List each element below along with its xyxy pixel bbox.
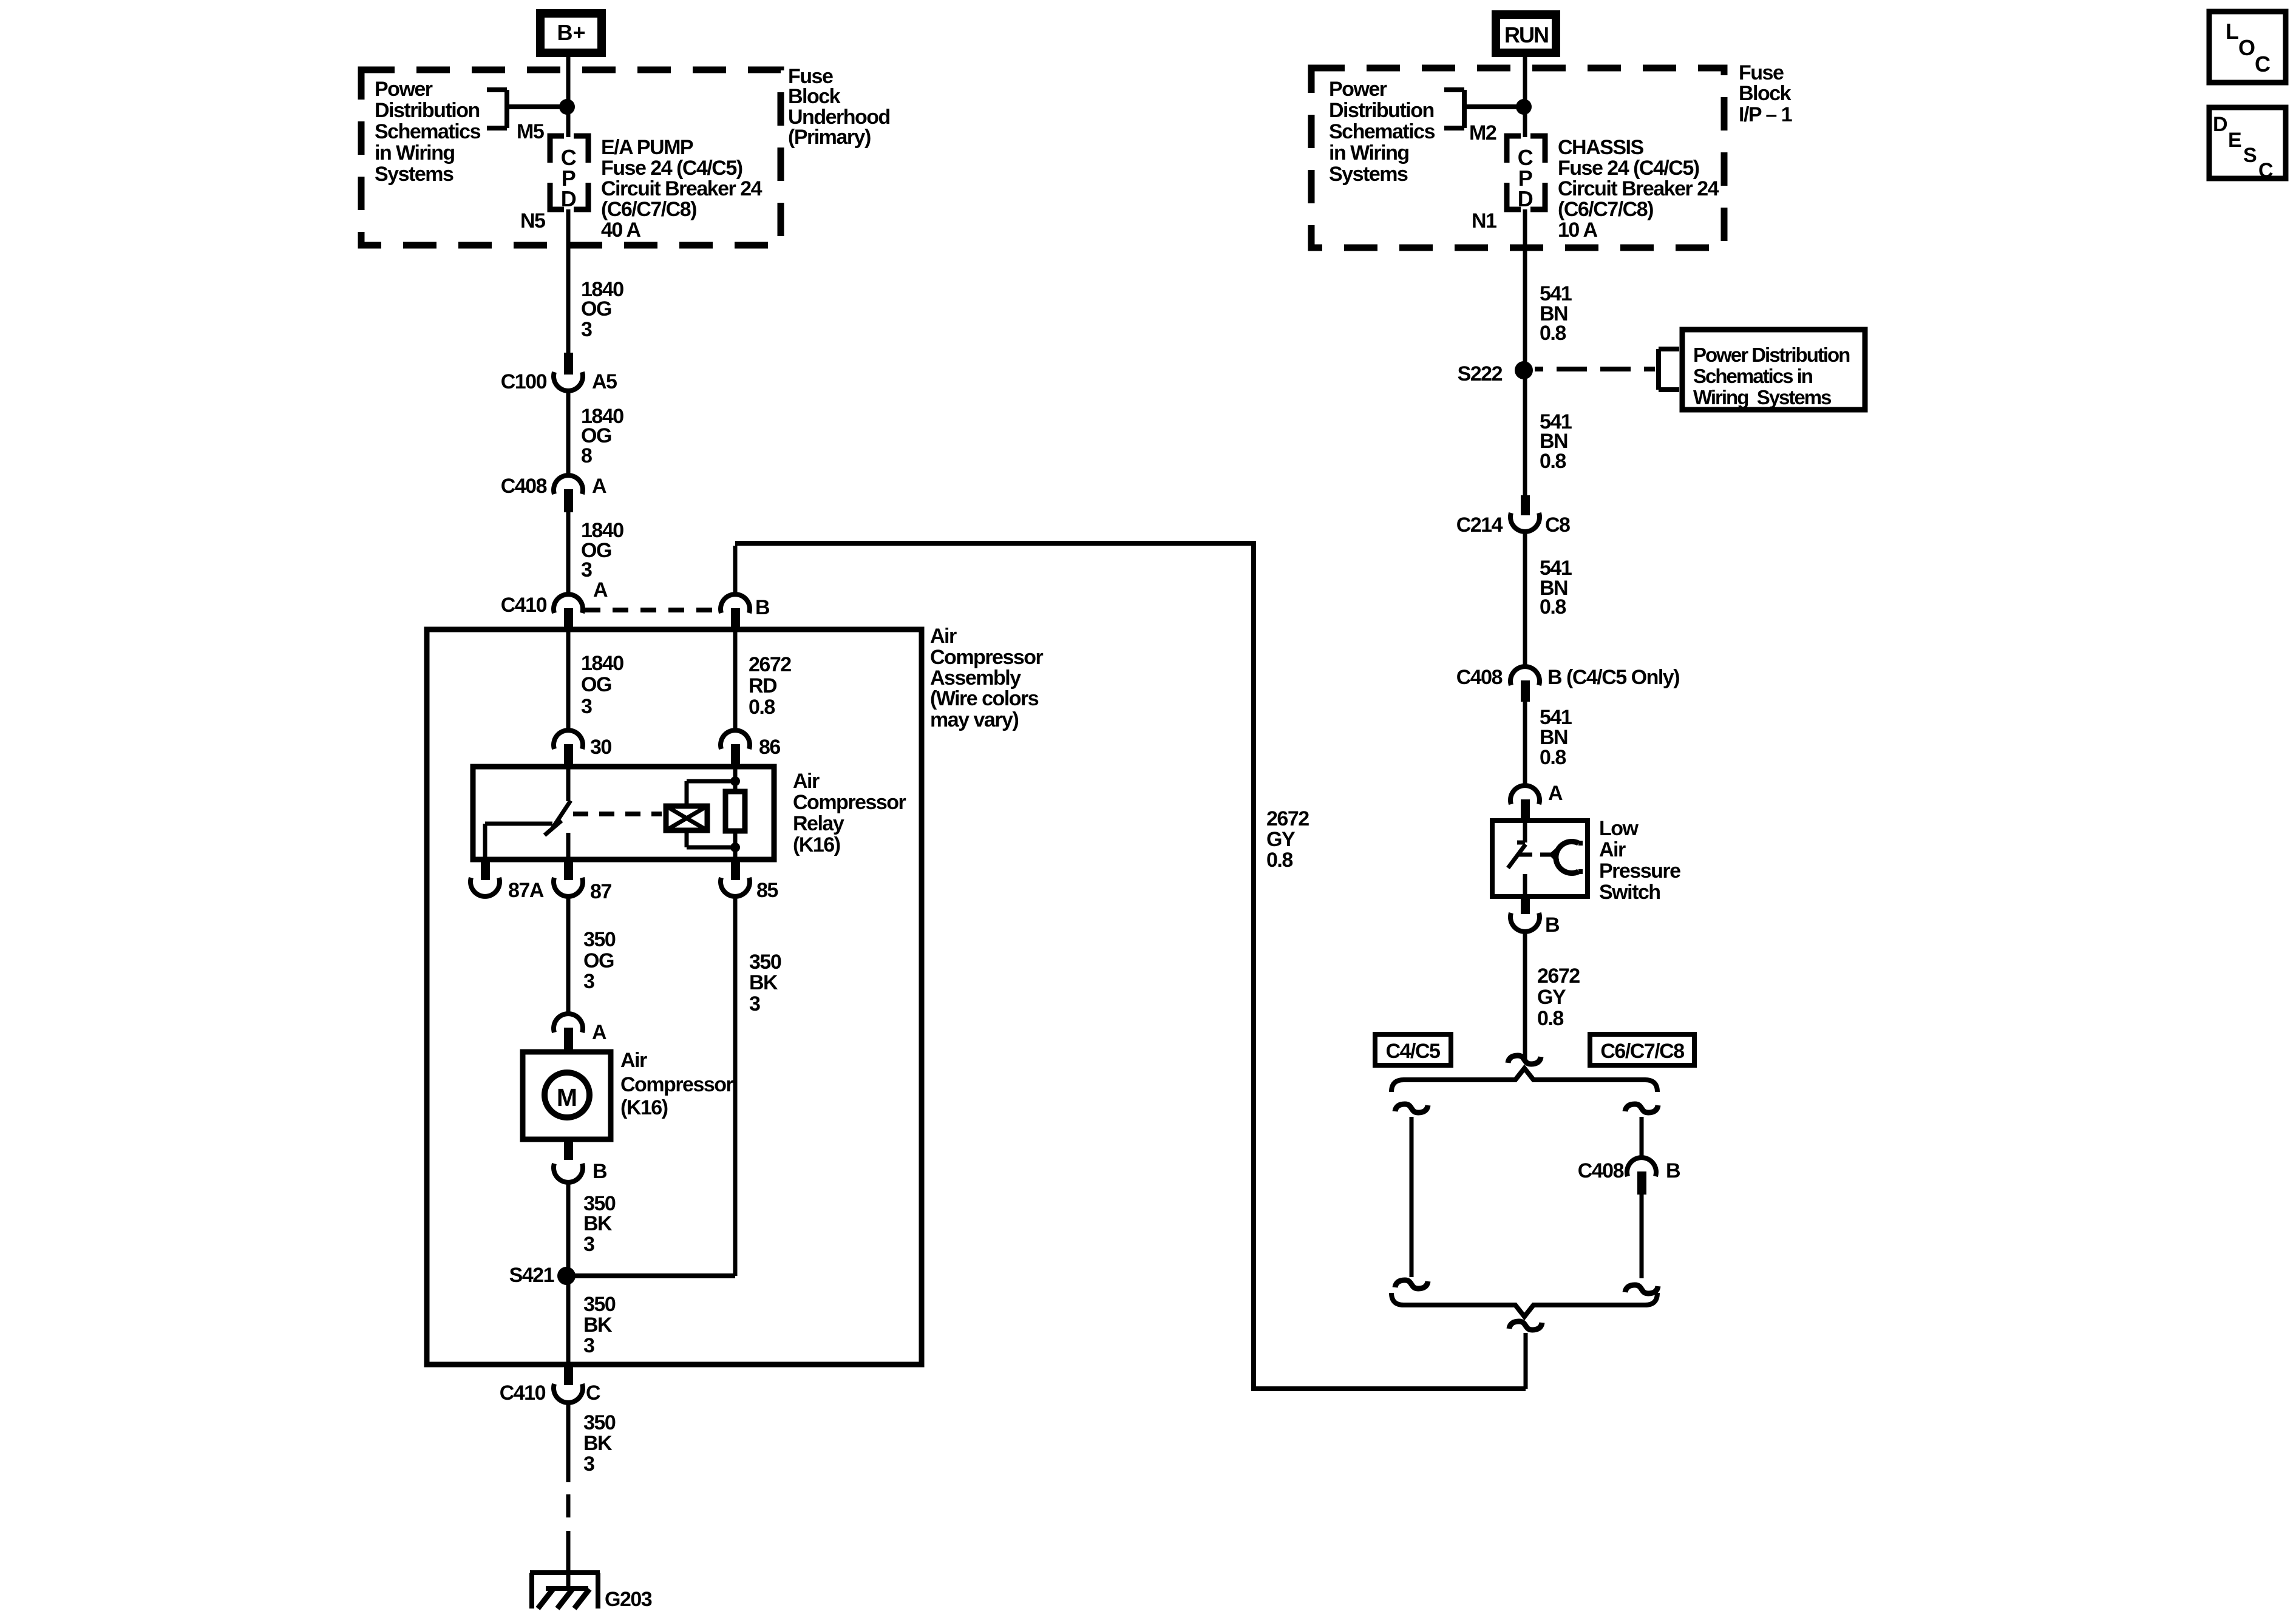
label pin C xyxy=(586,1381,600,1405)
fuse / circuit breaker CPD symbol (CHASSIS) xyxy=(1507,136,1545,211)
label C408 xyxy=(501,475,547,498)
wire switch to brace xyxy=(1523,932,1527,1060)
svg-text:Compressor: Compressor xyxy=(793,791,906,814)
svg-text:N1: N1 xyxy=(1472,209,1496,232)
relay pin 87A xyxy=(470,859,500,897)
svg-text:A: A xyxy=(592,475,606,498)
svg-text:Compressor: Compressor xyxy=(930,646,1044,669)
brace upper xyxy=(1391,1068,1657,1092)
wire loop vertical xyxy=(1251,541,1256,1391)
svg-text:0.8: 0.8 xyxy=(1540,450,1566,473)
svg-text:A: A xyxy=(593,578,608,602)
air compressor relay K16 box xyxy=(473,767,774,859)
wire label 350 BK 3 (above C410 C) xyxy=(583,1293,616,1357)
continuation hook (below lower brace) xyxy=(1509,1321,1542,1330)
label pin A (motor) xyxy=(592,1021,606,1044)
wire C408 to C410 xyxy=(566,512,571,594)
svg-text:3: 3 xyxy=(583,1233,594,1256)
connector C408 pin B right xyxy=(1510,666,1540,702)
fuse block I/P dashed box xyxy=(1311,68,1724,248)
svg-text:3: 3 xyxy=(749,992,760,1015)
splice S222 xyxy=(1515,361,1533,379)
svg-text:B+: B+ xyxy=(557,20,585,45)
svg-text:BK: BK xyxy=(583,1314,613,1337)
variant box C6/C7/C8 xyxy=(1590,1034,1694,1065)
svg-text:Low: Low xyxy=(1599,817,1639,840)
connector C100 pin A5 xyxy=(554,353,583,391)
svg-text:Air: Air xyxy=(930,625,957,648)
svg-text:Distribution: Distribution xyxy=(1329,99,1434,122)
label S222 xyxy=(1458,362,1503,385)
svg-text:Block: Block xyxy=(788,85,841,108)
svg-text:Compressor: Compressor xyxy=(620,1073,734,1096)
label pin A (switch) xyxy=(1548,782,1563,805)
svg-text:D: D xyxy=(2213,113,2227,136)
bracket to Power Distribution Schematics box xyxy=(1659,349,1679,390)
svg-text:0.8: 0.8 xyxy=(1266,849,1292,872)
label pin B (motor) xyxy=(593,1160,607,1183)
svg-text:Power Distribution: Power Distribution xyxy=(1693,344,1850,366)
svg-text:A: A xyxy=(1548,782,1563,805)
svg-text:B: B xyxy=(593,1160,607,1183)
connector C408 pin A xyxy=(554,475,583,512)
label Low Air Pressure Switch xyxy=(1599,817,1680,904)
svg-text:(C6/C7/C8): (C6/C7/C8) xyxy=(601,198,696,221)
svg-text:O: O xyxy=(2238,35,2255,60)
relay fixed contact from pin 30 xyxy=(566,767,571,801)
wire C410-A into assembly xyxy=(566,631,571,730)
label Air Compressor (K16) xyxy=(620,1049,734,1119)
wire motor to S421 xyxy=(566,1183,571,1276)
label pin B (C410) xyxy=(755,596,770,619)
svg-text:GY: GY xyxy=(1537,986,1566,1009)
svg-text:RD: RD xyxy=(749,674,777,697)
wire label 541 BN 0.8 (above S222) xyxy=(1540,282,1572,345)
connector C408 pin B (variant) xyxy=(1627,1158,1656,1195)
svg-text:Systems: Systems xyxy=(1329,163,1408,186)
label C410 (bottom) xyxy=(500,1381,546,1405)
svg-text:Schematics in: Schematics in xyxy=(1693,365,1813,387)
svg-text:D: D xyxy=(1518,186,1533,211)
dashed reference from S222 xyxy=(1535,367,1655,371)
svg-text:(K16): (K16) xyxy=(793,833,840,856)
svg-text:30: 30 xyxy=(590,736,611,759)
wire label 541 BN 0.8 (above C214) xyxy=(1540,410,1572,473)
svg-text:N5: N5 xyxy=(520,209,545,232)
wire S222 to C214 xyxy=(1523,369,1527,500)
wire label 350 BK 3 (above ground) xyxy=(583,1411,616,1476)
label C410 xyxy=(501,594,547,617)
svg-text:C4/C5: C4/C5 xyxy=(1386,1040,1440,1063)
svg-text:C100: C100 xyxy=(501,370,547,393)
wire C410-B into assembly xyxy=(733,631,738,730)
fuse / circuit breaker CPD symbol (E/A PUMP) xyxy=(550,136,588,211)
svg-text:Power: Power xyxy=(375,78,433,101)
wire label 350 OG 3 xyxy=(583,928,616,993)
relay resistor xyxy=(725,767,745,859)
wire label 1840 OG 3 (above relay pin 30) xyxy=(581,652,623,718)
svg-text:350: 350 xyxy=(583,1411,616,1434)
label pin 87 xyxy=(590,880,611,903)
relay pin 85 xyxy=(721,859,750,897)
svg-text:85: 85 xyxy=(756,879,778,902)
svg-text:GY: GY xyxy=(1266,828,1296,851)
dashed connector link C410 A-B xyxy=(585,608,721,612)
svg-text:BK: BK xyxy=(583,1212,613,1235)
splice S421 xyxy=(557,1267,576,1285)
DESC corner box xyxy=(2209,107,2286,182)
label CHASSIS Fuse 24 Circuit Breaker 24 10 A xyxy=(1558,136,1719,242)
svg-text:in Wiring: in Wiring xyxy=(375,141,455,164)
continuation hook (left variant) xyxy=(1395,1104,1428,1113)
svg-text:2672: 2672 xyxy=(1537,964,1580,988)
wire junction to fuse xyxy=(566,107,571,137)
relay switch common to 87A xyxy=(485,824,552,859)
motor pin B xyxy=(554,1139,583,1182)
label C408 (right) xyxy=(1456,666,1503,689)
label pin 30 xyxy=(590,736,611,759)
wire label 1840 OG 3 (above C410) xyxy=(581,519,623,581)
label S421 xyxy=(509,1264,554,1287)
svg-text:Schematics: Schematics xyxy=(1329,120,1435,143)
svg-text:M2: M2 xyxy=(1469,121,1496,144)
svg-text:350: 350 xyxy=(583,1293,616,1316)
svg-text:Wiring Systems: Wiring Systems xyxy=(1693,386,1831,408)
svg-text:(Wire colors: (Wire colors xyxy=(930,687,1039,710)
continuation hook (right variant bottom) xyxy=(1625,1285,1658,1293)
bracket tap M2 to Power Distribution Schematics xyxy=(1444,90,1524,128)
label pin C8 xyxy=(1545,514,1570,537)
svg-text:S222: S222 xyxy=(1458,362,1503,385)
svg-text:BK: BK xyxy=(749,971,778,994)
relay pin 87 stub xyxy=(566,833,571,859)
svg-text:87: 87 xyxy=(590,880,611,903)
svg-text:Circuit Breaker 24: Circuit Breaker 24 xyxy=(601,177,763,200)
svg-text:Power: Power xyxy=(1329,78,1387,101)
svg-text:0.8: 0.8 xyxy=(1540,595,1566,619)
svg-text:M5: M5 xyxy=(517,120,544,143)
wire label 2672 GY 0.8 (loop) xyxy=(1266,807,1309,872)
wire label 541 BN 0.8 (above switch) xyxy=(1540,706,1572,769)
label C408 (variant) xyxy=(1578,1159,1624,1182)
svg-text:Air: Air xyxy=(1599,838,1626,861)
label G203 xyxy=(605,1588,652,1611)
label N5 xyxy=(520,209,545,232)
bracket tap M5 to Power Distribution Schematics xyxy=(487,90,567,128)
svg-text:C: C xyxy=(2255,52,2271,76)
wire label 350 BK 3 (right branch) xyxy=(749,951,781,1015)
svg-text:D: D xyxy=(561,186,576,211)
label Fuse Block I/P - 1 xyxy=(1739,61,1792,126)
svg-text:Circuit Breaker 24: Circuit Breaker 24 xyxy=(1558,177,1719,200)
relay coil node top xyxy=(730,776,740,786)
svg-text:L: L xyxy=(2226,19,2238,44)
svg-text:Systems: Systems xyxy=(375,163,453,186)
svg-text:C214: C214 xyxy=(1456,514,1503,537)
wire fuse to S222 xyxy=(1523,209,1527,371)
svg-text:2672: 2672 xyxy=(749,653,791,676)
label C214 xyxy=(1456,514,1503,537)
svg-text:C: C xyxy=(586,1381,600,1405)
LOC corner box xyxy=(2209,12,2286,83)
wire label 2672 GY 0.8 (below switch) xyxy=(1537,964,1580,1030)
switch pin A xyxy=(1510,785,1540,821)
svg-text:3: 3 xyxy=(581,318,592,341)
label pin A5 xyxy=(592,370,617,393)
wire right variant to C408 xyxy=(1640,1117,1644,1159)
label E/A PUMP Fuse 24 Circuit Breaker 24 40 A xyxy=(601,136,763,242)
wire C410-C to ground xyxy=(566,1402,571,1554)
svg-text:0.8: 0.8 xyxy=(749,696,775,719)
svg-text:Distribution: Distribution xyxy=(375,99,480,122)
svg-text:Air: Air xyxy=(620,1049,647,1072)
wire 87 to motor xyxy=(566,897,571,1015)
svg-text:1840: 1840 xyxy=(581,652,623,675)
label pin B (switch) xyxy=(1545,914,1560,937)
continuation hook (main wire) xyxy=(1508,1056,1541,1064)
label pin 85 xyxy=(756,879,778,902)
svg-text:A: A xyxy=(592,1021,606,1044)
air compressor motor K16 xyxy=(523,1052,611,1139)
label Power Distribution Schematics in Wiring Systems (left) xyxy=(375,78,481,186)
label pin A (C408) xyxy=(592,475,606,498)
continuation hook (left variant bottom) xyxy=(1395,1280,1428,1289)
svg-text:OG: OG xyxy=(581,297,611,320)
low air pressure switch contacts xyxy=(1508,821,1583,897)
label pin B (C4/C5 Only) xyxy=(1547,666,1679,689)
wire left variant branch xyxy=(1410,1117,1414,1277)
relay pin 87 xyxy=(554,859,583,897)
svg-text:OG: OG xyxy=(581,673,611,696)
ignition terminal RUN xyxy=(1492,10,1560,57)
svg-text:Block: Block xyxy=(1739,82,1792,105)
low air pressure switch box xyxy=(1492,821,1588,897)
svg-text:C6/C7/C8: C6/C7/C8 xyxy=(1600,1040,1684,1063)
wire label 350 BK 3 (below motor) xyxy=(583,1192,616,1256)
svg-text:10 A: 10 A xyxy=(1558,219,1598,242)
label Power Distribution Schematics in Wiring Systems (right) xyxy=(1329,78,1435,186)
wire C408 variant down xyxy=(1640,1195,1644,1278)
connector C410 pin A xyxy=(554,594,583,631)
wire brace to loop xyxy=(1524,1333,1528,1389)
svg-text:C: C xyxy=(2258,159,2273,182)
svg-text:Assembly: Assembly xyxy=(930,666,1021,690)
wire loop horizontal top xyxy=(735,541,1254,546)
label Air Compressor Relay (K16) xyxy=(793,770,906,856)
svg-text:C408: C408 xyxy=(1456,666,1503,689)
svg-text:in Wiring: in Wiring xyxy=(1329,141,1409,164)
svg-text:(K16): (K16) xyxy=(620,1096,668,1119)
svg-text:2672: 2672 xyxy=(1266,807,1309,830)
wire C408 to switch xyxy=(1523,702,1527,787)
svg-text:C410: C410 xyxy=(501,594,547,617)
svg-text:S421: S421 xyxy=(509,1264,554,1287)
wire label 1840 OG 8 xyxy=(581,405,623,467)
svg-text:B: B xyxy=(755,596,770,619)
svg-text:8: 8 xyxy=(581,444,592,467)
switch pin B xyxy=(1510,898,1540,932)
wire C100 to C408 xyxy=(566,392,571,475)
label M5 xyxy=(517,120,544,143)
svg-text:(Primary): (Primary) xyxy=(788,126,871,149)
wire label 541 BN 0.8 (above C408) xyxy=(1540,557,1572,619)
svg-text:I/P – 1: I/P – 1 xyxy=(1739,103,1792,126)
label pin 87A xyxy=(508,879,544,902)
node M5 tap junction xyxy=(559,99,575,115)
ground G203 xyxy=(530,1551,600,1609)
wire label 1840 OG 3 (above C100) xyxy=(581,278,623,341)
label Air Compressor Assembly (Wire colors may vary) xyxy=(930,625,1044,731)
label C100 xyxy=(501,370,547,393)
label M2 xyxy=(1469,121,1496,144)
svg-text:86: 86 xyxy=(759,736,780,759)
wire S421 down xyxy=(566,1276,571,1367)
label pin B (variant) xyxy=(1666,1159,1680,1182)
relay pin 30 xyxy=(554,730,583,767)
wire B+ to fuse block xyxy=(566,57,571,109)
svg-text:3: 3 xyxy=(583,970,594,993)
label N1 xyxy=(1472,209,1496,232)
svg-text:Switch: Switch xyxy=(1599,881,1660,904)
wire junction to fuse (right) xyxy=(1523,107,1527,137)
label pin 86 xyxy=(759,736,780,759)
svg-text:RUN: RUN xyxy=(1504,22,1548,47)
label Fuse Block Underhood (Primary) xyxy=(788,65,890,149)
fuse block underhood dashed box xyxy=(361,70,781,245)
motor pin A xyxy=(554,1014,583,1051)
svg-text:S: S xyxy=(2243,144,2257,167)
svg-text:350: 350 xyxy=(583,928,616,951)
svg-text:0.8: 0.8 xyxy=(1540,746,1566,769)
label pin A (C410) xyxy=(593,578,608,602)
power terminal B+ xyxy=(536,9,606,57)
svg-text:Air: Air xyxy=(793,770,820,793)
svg-text:350: 350 xyxy=(749,951,781,974)
svg-text:Pressure: Pressure xyxy=(1599,859,1680,883)
svg-text:B: B xyxy=(1545,914,1560,937)
svg-text:Schematics: Schematics xyxy=(375,120,481,143)
wire RUN to fuse block xyxy=(1523,57,1527,109)
wire S421 branch horizontal xyxy=(566,1273,735,1278)
svg-text:G203: G203 xyxy=(605,1588,652,1611)
svg-text:may vary): may vary) xyxy=(930,708,1018,731)
svg-text:87A: 87A xyxy=(508,879,544,902)
power distribution schematics reference box xyxy=(1682,330,1865,410)
relay actuation dashed link xyxy=(573,812,662,816)
connector C410 pin B xyxy=(721,546,750,631)
relay coil xyxy=(666,781,733,847)
svg-text:CHASSIS: CHASSIS xyxy=(1558,136,1643,159)
svg-text:40 A: 40 A xyxy=(601,219,641,242)
svg-text:C410: C410 xyxy=(500,1381,546,1405)
svg-text:0.8: 0.8 xyxy=(1537,1007,1563,1030)
svg-text:3: 3 xyxy=(583,1453,594,1476)
relay pin 86 xyxy=(721,730,750,767)
svg-text:Fuse 24 (C4/C5): Fuse 24 (C4/C5) xyxy=(1558,157,1699,180)
svg-text:E/A PUMP: E/A PUMP xyxy=(601,136,693,159)
svg-text:3: 3 xyxy=(583,1334,594,1357)
wire fuse to C100 xyxy=(566,209,571,353)
relay switch arm xyxy=(545,801,571,835)
variant box C4/C5 xyxy=(1375,1034,1451,1065)
svg-text:C408: C408 xyxy=(1578,1159,1624,1182)
wire loop horizontal bottom xyxy=(1251,1386,1526,1391)
svg-text:BK: BK xyxy=(583,1432,613,1455)
wire C214 to C408 xyxy=(1523,532,1527,668)
air compressor assembly box xyxy=(427,629,922,1364)
svg-text:C408: C408 xyxy=(501,475,547,498)
connector C214 pin C8 xyxy=(1510,495,1540,532)
svg-text:B: B xyxy=(1666,1159,1680,1182)
svg-text:0.8: 0.8 xyxy=(1540,322,1566,345)
connector C410 pin C xyxy=(554,1367,583,1403)
svg-text:3: 3 xyxy=(581,558,592,581)
svg-text:3: 3 xyxy=(581,695,592,718)
svg-text:E: E xyxy=(2228,129,2241,152)
svg-text:C8: C8 xyxy=(1545,514,1570,537)
node M2 tap junction xyxy=(1516,99,1532,115)
wire 85 to S421 xyxy=(733,897,738,1276)
svg-text:Fuse: Fuse xyxy=(1739,61,1784,84)
wire label 2672 RD 0.8 xyxy=(749,653,791,719)
svg-text:Fuse 24 (C4/C5): Fuse 24 (C4/C5) xyxy=(601,157,742,180)
relay coil node bottom xyxy=(730,842,740,852)
svg-text:A5: A5 xyxy=(592,370,617,393)
continuation hook (right variant) xyxy=(1625,1104,1658,1113)
svg-text:M: M xyxy=(557,1083,577,1111)
svg-text:Relay: Relay xyxy=(793,812,844,835)
brace lower xyxy=(1391,1293,1657,1317)
svg-text:OG: OG xyxy=(583,949,614,972)
svg-text:(C6/C7/C8): (C6/C7/C8) xyxy=(1558,198,1653,221)
svg-text:B (C4/C5 Only): B (C4/C5 Only) xyxy=(1547,666,1679,689)
